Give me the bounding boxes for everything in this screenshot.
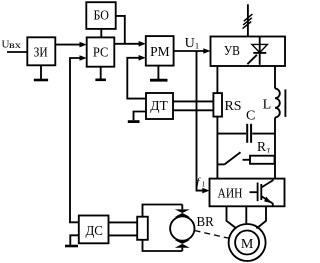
svg-text:РС: РС <box>93 45 109 60</box>
DC link left rail <box>216 66 218 179</box>
svg-text:1: 1 <box>195 40 199 50</box>
mains supply line <box>247 4 249 36</box>
label Rт <box>257 139 271 154</box>
block ДС <box>79 216 109 244</box>
svg-text:RS: RS <box>225 99 242 114</box>
svg-text:ДС: ДС <box>85 224 103 239</box>
block БО <box>86 2 115 29</box>
inductor L <box>275 89 285 118</box>
phase wire left АИН to motor <box>227 206 237 228</box>
svg-text:1: 1 <box>202 180 206 189</box>
resistor Rт <box>243 156 275 164</box>
svg-text:М: М <box>241 237 254 252</box>
wire ДС to BR resistor upper <box>109 221 138 223</box>
label Uвх <box>2 39 22 51</box>
block РМ <box>146 36 174 66</box>
motor М <box>229 224 266 261</box>
capacitor C <box>217 124 275 143</box>
DC link right rail <box>274 66 276 179</box>
svg-text:U: U <box>185 36 195 51</box>
wire BR loop top <box>143 205 183 217</box>
wire ДС to BR resistor lower <box>109 234 138 236</box>
ground bar at ДС <box>65 245 78 248</box>
resistor in BR loop <box>137 217 148 240</box>
ground under ДТ left <box>128 112 146 122</box>
label f1 <box>196 176 205 188</box>
phase wire middle АИН to motor <box>245 206 247 224</box>
wire БО to РС connector <box>100 29 102 38</box>
svg-text:УВ: УВ <box>224 44 240 59</box>
svg-text:ДТ: ДТ <box>150 99 168 114</box>
wire BR loop bottom <box>143 240 183 251</box>
wire ЗИ to РС <box>55 42 86 48</box>
wire Uвх input <box>7 51 27 53</box>
tachogenerator BR <box>170 205 194 252</box>
wire РС to РМ <box>114 41 146 47</box>
phase wire right АИН to motor <box>257 206 267 228</box>
switch (braking chopper) <box>217 152 240 164</box>
ground under РС <box>95 67 106 80</box>
ground under РМ <box>150 66 168 81</box>
svg-text:т: т <box>267 145 271 154</box>
wire current feedback ДТ to РМ <box>127 55 146 99</box>
block РС <box>87 37 115 66</box>
wire ДТ to RS upper <box>173 100 213 102</box>
block ЗИ <box>27 37 55 65</box>
svg-text:вх: вх <box>9 41 22 51</box>
resistor RS <box>213 93 222 117</box>
block УВ <box>211 37 286 67</box>
thyristor in УВ <box>247 37 267 65</box>
svg-text:БО: БО <box>93 9 109 24</box>
block ДТ <box>146 93 173 119</box>
mains hatch marks <box>243 14 253 29</box>
IGBT in АИН <box>250 179 273 206</box>
ground lead of ДС <box>70 235 79 244</box>
svg-text:C: C <box>246 109 255 124</box>
wire БО to РС-РМ net <box>116 16 125 44</box>
svg-text:L: L <box>263 97 272 112</box>
label U1 <box>185 36 200 51</box>
wire U1 branch down to АИН (f1) <box>197 51 210 193</box>
svg-text:АИН: АИН <box>218 187 243 202</box>
wire ДТ to RS lower <box>173 109 213 111</box>
wire РМ to УВ (U1) <box>174 48 211 54</box>
svg-text:ЗИ: ЗИ <box>34 46 48 61</box>
svg-text:f: f <box>196 176 201 188</box>
block АИН <box>210 179 285 207</box>
svg-text:R: R <box>257 139 266 154</box>
dashed shaft coupling BR to М <box>195 231 231 239</box>
svg-text:BR: BR <box>197 215 215 230</box>
ground under ЗИ <box>34 65 48 80</box>
wire speed feedback ДС to РС <box>70 55 87 222</box>
svg-text:РМ: РМ <box>150 45 170 60</box>
